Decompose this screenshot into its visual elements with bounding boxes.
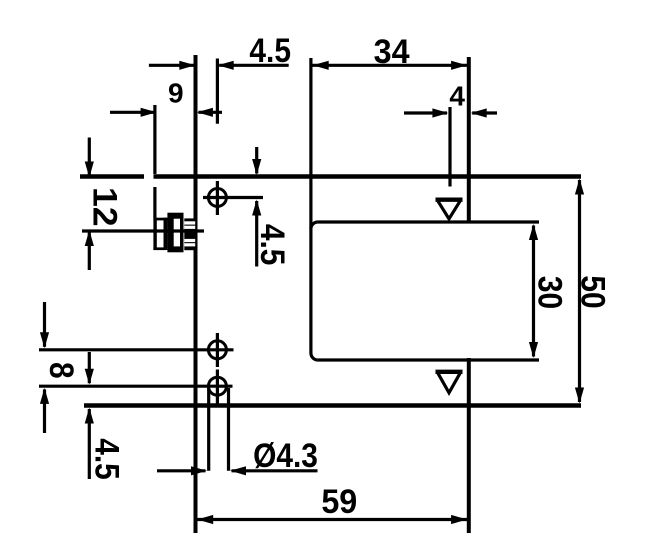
dimension 4 bbox=[404, 81, 497, 118]
dimension 34 bbox=[313, 33, 468, 71]
dimension 8 bbox=[40, 302, 81, 433]
dimension 4.5 top bbox=[149, 31, 291, 70]
dimension 4.5 bottom bbox=[85, 352, 126, 480]
svg-text:9: 9 bbox=[168, 77, 184, 108]
slot left edge bbox=[309, 58, 312, 353]
slot bottom-left corner bbox=[311, 353, 318, 360]
svg-text:34: 34 bbox=[374, 33, 410, 71]
dimension 59 bbox=[197, 483, 467, 524]
slot top edge bbox=[318, 220, 539, 223]
body bottom edge bbox=[84, 403, 581, 407]
dimension 50 bbox=[574, 179, 612, 404]
dimension 9 bbox=[110, 77, 222, 117]
svg-text:4: 4 bbox=[449, 81, 465, 112]
hole H1 top extension bbox=[216, 59, 219, 124]
body top edge bbox=[80, 174, 581, 178]
svg-text:4.5: 4.5 bbox=[254, 224, 292, 266]
dimension 9 left extension bbox=[153, 105, 156, 174]
svg-text:50: 50 bbox=[574, 275, 612, 308]
hole H3 crosshair bbox=[39, 370, 233, 404]
svg-text:8: 8 bbox=[43, 362, 81, 379]
mounting slot sides bbox=[209, 388, 229, 471]
optical axis line upper bbox=[448, 107, 451, 187]
body left edge bbox=[194, 55, 198, 533]
optical mark upper triangle bbox=[436, 200, 463, 219]
svg-text:4.5: 4.5 bbox=[249, 31, 291, 69]
connector extension line bbox=[153, 187, 156, 218]
svg-text:4.5: 4.5 bbox=[88, 438, 126, 480]
connector axis line bbox=[82, 229, 204, 232]
hole H1 crosshair bbox=[203, 181, 263, 215]
hole H2 crosshair bbox=[39, 333, 234, 367]
upper arm right edge bbox=[467, 57, 471, 224]
optical mark lower triangle bbox=[436, 372, 463, 393]
dimension 12 bbox=[85, 138, 124, 271]
dimension 4.5 vertical at hole H1 bbox=[252, 147, 292, 267]
svg-text:Ø4.3: Ø4.3 bbox=[253, 436, 318, 474]
svg-text:30: 30 bbox=[531, 276, 569, 309]
hole H2 circle bbox=[208, 341, 226, 359]
svg-text:59: 59 bbox=[321, 483, 357, 521]
connector M8 plug bbox=[153, 213, 195, 253]
svg-text:12: 12 bbox=[86, 187, 124, 227]
hole H1 circle bbox=[208, 189, 226, 207]
dimension diameter 4.3 bbox=[157, 436, 318, 475]
hole H3 circle bbox=[208, 377, 226, 395]
slot top-left corner bbox=[311, 222, 318, 229]
slot bottom edge bbox=[318, 358, 539, 361]
lower arm right edge bbox=[467, 358, 471, 533]
dimension 30 bbox=[529, 224, 569, 358]
